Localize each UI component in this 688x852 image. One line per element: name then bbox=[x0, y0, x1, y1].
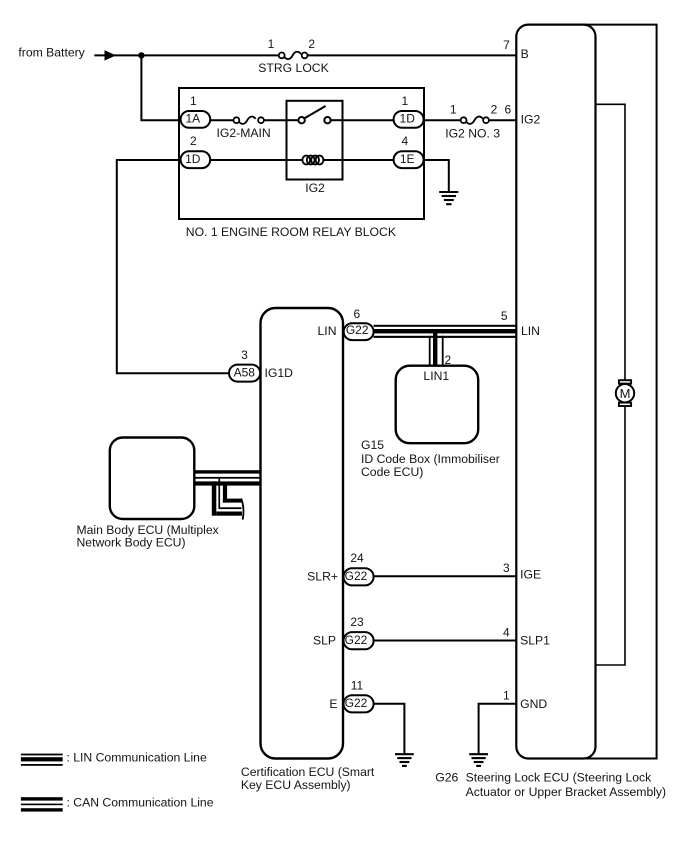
svg-text:B: B bbox=[521, 47, 529, 61]
svg-text:Code ECU): Code ECU) bbox=[361, 465, 423, 479]
svg-text:7: 7 bbox=[503, 38, 510, 52]
svg-text:GND: GND bbox=[520, 697, 547, 711]
svg-text:2: 2 bbox=[308, 37, 315, 51]
svg-text:1: 1 bbox=[503, 689, 510, 703]
svg-text:2: 2 bbox=[491, 103, 498, 117]
svg-text:A58: A58 bbox=[234, 366, 256, 380]
svg-text:6: 6 bbox=[505, 103, 512, 117]
svg-text:G22: G22 bbox=[346, 323, 369, 337]
svg-text:11: 11 bbox=[351, 678, 364, 692]
svg-text:E: E bbox=[329, 697, 337, 711]
svg-text:1D: 1D bbox=[185, 152, 201, 166]
svg-text:SLR+: SLR+ bbox=[307, 569, 338, 583]
svg-text:STRG LOCK: STRG LOCK bbox=[258, 61, 328, 75]
svg-text:3: 3 bbox=[503, 561, 510, 575]
svg-text:LIN1: LIN1 bbox=[423, 369, 449, 383]
svg-text:1: 1 bbox=[450, 103, 457, 117]
svg-text:4: 4 bbox=[402, 134, 409, 148]
svg-text:from Battery: from Battery bbox=[18, 46, 85, 60]
svg-text:1A: 1A bbox=[185, 112, 200, 126]
svg-text:IG2 NO. 3: IG2 NO. 3 bbox=[445, 127, 500, 141]
svg-text:LIN: LIN bbox=[318, 324, 337, 338]
svg-text:G22: G22 bbox=[345, 696, 368, 710]
svg-text:1: 1 bbox=[402, 94, 409, 108]
svg-text:IG1D: IG1D bbox=[265, 366, 294, 380]
svg-text:G22: G22 bbox=[345, 633, 368, 647]
svg-text:IG2: IG2 bbox=[521, 112, 541, 126]
svg-text:4: 4 bbox=[503, 625, 510, 639]
svg-text:1E: 1E bbox=[400, 152, 415, 166]
svg-text:Key ECU Assembly): Key ECU Assembly) bbox=[241, 778, 351, 792]
svg-text:23: 23 bbox=[350, 615, 364, 629]
svg-text:SLP: SLP bbox=[313, 634, 336, 648]
svg-text:IG2: IG2 bbox=[305, 181, 325, 195]
svg-text:Actuator or Upper Bracket Asse: Actuator or Upper Bracket Assembly) bbox=[466, 785, 666, 799]
svg-text:IGE: IGE bbox=[520, 568, 541, 582]
svg-text:G15: G15 bbox=[361, 438, 384, 452]
svg-text:24: 24 bbox=[350, 551, 364, 565]
svg-text:Certification ECU (Smart: Certification ECU (Smart bbox=[241, 765, 375, 779]
svg-text:G26: G26 bbox=[435, 770, 458, 784]
svg-text:M: M bbox=[620, 386, 631, 401]
svg-text:1: 1 bbox=[268, 37, 275, 51]
svg-text:2: 2 bbox=[445, 353, 452, 367]
svg-text:3: 3 bbox=[241, 348, 248, 362]
svg-text:: CAN Communication Line: : CAN Communication Line bbox=[67, 796, 214, 810]
svg-text:IG2-MAIN: IG2-MAIN bbox=[217, 126, 271, 140]
svg-text:Steering Lock ECU (Steering Lo: Steering Lock ECU (Steering Lock bbox=[466, 770, 653, 784]
svg-text:: LIN Communication Line: : LIN Communication Line bbox=[67, 751, 207, 765]
svg-text:1D: 1D bbox=[400, 112, 416, 126]
svg-text:Network Body ECU): Network Body ECU) bbox=[77, 536, 186, 550]
svg-text:NO. 1 ENGINE ROOM RELAY BLOCK: NO. 1 ENGINE ROOM RELAY BLOCK bbox=[186, 225, 396, 239]
svg-text:G22: G22 bbox=[345, 569, 368, 583]
svg-text:1: 1 bbox=[190, 94, 197, 108]
svg-text:2: 2 bbox=[190, 134, 197, 148]
svg-text:ID Code Box (Immobiliser: ID Code Box (Immobiliser bbox=[361, 452, 500, 466]
svg-text:SLP1: SLP1 bbox=[520, 634, 550, 648]
svg-text:LIN: LIN bbox=[521, 324, 540, 338]
svg-text:6: 6 bbox=[353, 307, 360, 321]
svg-text:5: 5 bbox=[501, 309, 508, 323]
